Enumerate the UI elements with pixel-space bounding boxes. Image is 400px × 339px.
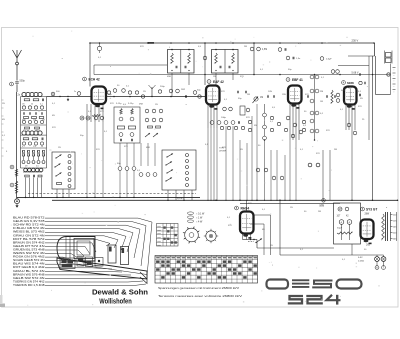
wave switch S1 box	[52, 152, 75, 189]
svg-text:0,5: 0,5	[272, 107, 276, 109]
svg-text:50p: 50p	[288, 69, 292, 71]
svg-text:1M: 1M	[260, 97, 263, 99]
svg-text:3-15p: 3-15p	[116, 103, 122, 105]
svg-text:4N: 4N	[2, 119, 5, 121]
pilot lamp La1	[375, 257, 380, 262]
parts right of V2	[223, 107, 227, 111]
ground bus left	[17, 196, 201, 198]
svg-text:2M: 2M	[334, 149, 337, 151]
svg-text:2M: 2M	[42, 119, 45, 121]
svg-text:6288: 6288	[347, 81, 354, 85]
svg-text:GRAU GN 572 4N: GRAU GN 572 4N	[13, 233, 45, 237]
svg-text:42: 42	[346, 216, 349, 218]
svg-text:○: ○	[393, 80, 395, 83]
tube V3 EBF41 label	[286, 78, 290, 82]
svg-text:578: 578	[52, 127, 56, 129]
svg-text:▬▬: ▬▬	[157, 237, 161, 239]
resistor ref V left edge	[10, 183, 14, 187]
svg-text:1N: 1N	[143, 91, 146, 93]
mixer coupling parts	[22, 120, 25, 123]
svg-text:▬▬: ▬▬	[157, 241, 161, 243]
logo digit 4	[327, 295, 341, 300]
tube V2 EAF42 label	[207, 80, 211, 84]
wire V5 top to bus	[246, 200, 248, 211]
logo DESO letter S	[312, 281, 332, 288]
svg-text:578: 578	[33, 119, 36, 121]
svg-text:LEVER: LEVER	[219, 151, 227, 153]
choke in box	[337, 232, 352, 234]
logo DESO letter O	[337, 280, 362, 289]
chassis sketch speaker magnet	[74, 239, 94, 259]
resistor squiggle R-ant	[15, 169, 17, 176]
svg-text:0,1: 0,1	[358, 91, 362, 93]
switch S1 wiper 3	[56, 173, 62, 177]
svg-text:4N8: 4N8	[146, 147, 151, 149]
svg-text:GELB RT 572 4N: GELB RT 572 4N	[13, 244, 45, 248]
svg-text:EBF 41: EBF 41	[292, 78, 303, 82]
svg-text:D.BLAU GB 572 4N: D.BLAU GB 572 4N	[13, 226, 45, 230]
chassis sketch speaker housing	[57, 237, 95, 262]
padder capacitors row	[23, 112, 25, 114]
svg-text:▬▬: ▬▬	[157, 226, 161, 228]
svg-text:BLAU RD 578-572: BLAU RD 578-572	[13, 216, 45, 220]
svg-text:GRUEN BL 573 4N8: GRUEN BL 573 4N8	[13, 247, 45, 251]
wires comb to heater bus	[207, 128, 209, 200]
svg-text:0,1: 0,1	[303, 125, 307, 127]
speaker line	[376, 94, 391, 96]
svg-text:6,3V~: 6,3V~	[177, 196, 184, 200]
switch S1 wiper 2	[55, 164, 61, 168]
filter capacitor box	[334, 203, 361, 244]
svg-text:1N: 1N	[240, 149, 243, 151]
svg-text:GELB SW 572 4N: GELB SW 572 4N	[13, 276, 45, 280]
svg-text:2M: 2M	[320, 91, 323, 93]
svg-text:Dewald & Sohn: Dewald & Sohn	[92, 287, 149, 296]
thick mark on B+ line	[148, 42, 155, 44]
chassis sketch tube can 2	[121, 247, 129, 265]
svg-text:230 V: 230 V	[352, 39, 359, 43]
tuner block right rail	[46, 97, 48, 168]
svg-text:○: ○	[393, 91, 395, 94]
decoupling cap on B+	[97, 46, 101, 50]
svg-text:BLAU WS 574 4N: BLAU WS 574 4N	[13, 262, 45, 266]
svg-text:0,1: 0,1	[300, 249, 304, 251]
svg-text:○: ○	[393, 85, 395, 88]
speaker terminal strip	[393, 67, 396, 69]
svg-text:50: 50	[41, 146, 43, 148]
svg-text:578: 578	[246, 117, 250, 119]
svg-text:578: 578	[96, 149, 100, 151]
svg-text:107: 107	[337, 216, 342, 218]
dropper parts column	[310, 75, 314, 79]
svg-text:5.68 V: 5.68 V	[352, 72, 359, 75]
svg-text:6-8V: 6-8V	[358, 257, 363, 259]
svg-text:4N: 4N	[25, 166, 28, 168]
svg-text:25: 25	[362, 119, 365, 121]
svg-text:5N: 5N	[360, 98, 363, 100]
svg-text:4N8: 4N8	[139, 104, 144, 106]
wires IF1 down	[171, 73, 173, 97]
wires refs to bus	[119, 170, 121, 197]
chassis sketch tube can 1	[108, 245, 116, 263]
svg-text:578: 578	[221, 91, 225, 93]
scan smudge bottom-left corner	[0, 304, 5, 308]
svg-text:a: a	[386, 207, 388, 209]
chassis transformer box	[60, 258, 75, 269]
rectifier V6 SY3GT label	[361, 207, 365, 211]
wire B+ drop mid	[204, 43, 206, 85]
wires V2 pins down	[207, 105, 209, 129]
svg-text:0,1: 0,1	[2, 135, 6, 137]
svg-text:578: 578	[140, 46, 144, 48]
svg-text:1M: 1M	[320, 101, 323, 103]
svg-text:EAF 42: EAF 42	[213, 80, 224, 84]
switch S1 contacts	[68, 155, 71, 158]
svg-text:≈ 1 W: ≈ 1 W	[196, 216, 203, 219]
svg-text:ROSA GN 576 4N2: ROSA GN 576 4N2	[13, 255, 45, 259]
svg-text:50p: 50p	[238, 98, 242, 100]
capacitor antenna series 500p	[15, 81, 18, 83]
svg-text:2M: 2M	[247, 94, 250, 96]
svg-text:0,1: 0,1	[321, 77, 325, 79]
legend oval 0.1W	[187, 212, 193, 215]
svg-text:GELB GN 6,3V 578: GELB GN 6,3V 578	[13, 219, 45, 223]
electrolytic cap C+ b	[347, 220, 352, 225]
svg-text:TUERKIS GN 574 4N2: TUERKIS GN 574 4N2	[13, 279, 45, 283]
svg-text:578: 578	[33, 146, 36, 148]
svg-text:50: 50	[364, 249, 367, 251]
wire row L1 base	[21, 96, 47, 98]
osc cathode parts refs 15 16	[80, 116, 84, 120]
svg-text:RH34: RH34	[241, 207, 250, 211]
svg-text:0,1: 0,1	[52, 103, 56, 105]
svg-text:0,1: 0,1	[227, 217, 231, 219]
svg-text:Spannungen gemessen mit Instru: Spannungen gemessen mit Instrument 26800…	[158, 286, 239, 290]
coil row L2 (oscillator coils)	[22, 131, 26, 135]
ground arrow mid	[67, 98, 69, 99]
refs row above switch	[118, 167, 122, 171]
transformer taps	[390, 212, 392, 241]
resistor ref 8 left edge	[10, 165, 14, 169]
svg-text:0,1: 0,1	[40, 104, 43, 106]
parts right of V4	[359, 94, 361, 97]
svg-text:SCHW GELB 572 4N: SCHW GELB 572 4N	[13, 258, 45, 262]
filter cap refs	[338, 207, 342, 211]
parts under L3	[25, 175, 30, 177]
detector load parts	[240, 106, 245, 115]
wires lamps top	[376, 255, 378, 257]
mains selector bracket	[396, 212, 398, 241]
parts in S1 bottom	[57, 183, 62, 185]
ground symbol main	[16, 204, 18, 206]
tuner block bottom ties	[21, 147, 47, 149]
extra component refs row1	[107, 91, 110, 94]
svg-text:500p: 500p	[20, 80, 26, 83]
svg-text:50p: 50p	[117, 163, 121, 165]
wave switch S2 box	[162, 150, 196, 190]
svg-text:0,1: 0,1	[342, 259, 346, 261]
svg-text:Tensions mesurées avec voltmèt: Tensions mesurées avec voltmètre 26800 Ω…	[158, 294, 242, 298]
svg-text:0,1: 0,1	[260, 69, 264, 71]
svg-text:5N: 5N	[254, 125, 257, 127]
svg-text:0,1: 0,1	[104, 131, 108, 133]
detector row parts	[210, 121, 214, 125]
resistor squiggle R-v	[15, 181, 18, 193]
refs mid IF	[169, 89, 173, 93]
output transformer T2	[386, 53, 392, 58]
tube V1 ECH42	[92, 87, 107, 105]
svg-text:3-15p: 3-15p	[128, 103, 134, 105]
svg-text:50p: 50p	[197, 90, 201, 92]
svg-text:BRAUN WS 576 4N8: BRAUN WS 576 4N8	[13, 272, 45, 276]
tuner block left rail	[20, 97, 22, 168]
rectifier V6 SY3GT	[361, 220, 374, 240]
resistors under L1	[24, 99, 30, 101]
wire nested L2	[250, 223, 264, 225]
IF transformer IF2 can	[212, 50, 239, 74]
trimmer cluster row 1	[22, 106, 25, 109]
switch S1 wiper 1	[56, 155, 62, 159]
output rails down	[372, 56, 374, 200]
signal wire to mixer	[47, 96, 92, 98]
left margin tick labels	[2, 99, 4, 101]
svg-text:+: +	[340, 220, 342, 224]
wire bus drop to lamps	[279, 200, 281, 255]
wire x369 down	[368, 56, 370, 140]
wire RH34 to rectifier	[256, 240, 258, 249]
svg-text:578: 578	[100, 111, 104, 113]
wires V4 pins down	[345, 105, 347, 131]
svg-text:50p: 50p	[80, 135, 84, 137]
wires L3 to ground bus	[25, 178, 27, 198]
svg-text:0,1: 0,1	[270, 121, 274, 123]
wires RH34 pins	[242, 234, 244, 240]
svg-text:0,1: 0,1	[126, 86, 130, 88]
svg-text:578: 578	[326, 130, 330, 132]
osc right column parts	[145, 109, 149, 113]
svg-text:SY3 GT: SY3 GT	[366, 208, 377, 212]
wires S1 to bus	[56, 189, 58, 197]
power transformer core	[385, 212, 387, 241]
svg-text:≈ 4 W: ≈ 4 W	[196, 220, 203, 223]
wires S2 to bus	[167, 190, 169, 200]
svg-text:50µF: 50µF	[337, 228, 343, 230]
wires V3 pins down	[289, 104, 291, 141]
svg-text:0,5: 0,5	[36, 166, 39, 168]
svg-text:0,5: 0,5	[123, 104, 127, 106]
transformer primary winding	[382, 214, 385, 239]
coil row L3	[24, 168, 28, 172]
extra parts under V2 and V3	[220, 126, 223, 129]
scan speckles	[253, 36, 256, 39]
svg-text:50: 50	[258, 145, 261, 147]
svg-text:50: 50	[31, 104, 33, 106]
tube V1 ECH42 label	[83, 77, 87, 81]
wire antenna rail down	[16, 92, 18, 197]
parts left of V4	[336, 93, 340, 97]
svg-text:0,1: 0,1	[340, 109, 344, 111]
wire B+ corner down	[374, 43, 376, 56]
logo digit 2	[306, 296, 323, 303]
svg-text:2M: 2M	[244, 46, 247, 48]
tube V3 EBF41	[288, 86, 302, 104]
svg-text:5: 5	[6, 151, 8, 153]
line y65 right segment	[338, 65, 369, 67]
voltage table	[155, 256, 258, 284]
wire nested L1	[254, 214, 271, 216]
svg-text:578: 578	[358, 106, 362, 108]
leader lines fan	[45, 218, 152, 276]
svg-text:0,5µF: 0,5µF	[326, 59, 332, 61]
ref 578 on bus	[322, 199, 326, 203]
svg-text:100p: 100p	[221, 117, 227, 119]
svg-text:1N: 1N	[290, 207, 293, 209]
svg-text:1N: 1N	[58, 147, 61, 149]
decoupling column wire	[314, 75, 316, 141]
svg-text:4,5M: 4,5M	[262, 49, 267, 51]
chassis bar tip	[140, 272, 147, 284]
parts below V3	[286, 116, 290, 120]
svg-text:4N8: 4N8	[22, 119, 25, 121]
wire B+ drop left	[89, 43, 91, 87]
svg-text:0,25A: 0,25A	[358, 259, 364, 262]
parts between V1 V2	[113, 89, 117, 93]
logo digit 5	[288, 296, 303, 303]
refs row AF section	[308, 163, 312, 167]
antenna A1	[16, 58, 18, 62]
svg-text:500: 500	[56, 91, 60, 93]
speaker terminal on screen line	[387, 73, 390, 76]
extra caps sprinkle	[237, 91, 239, 94]
svg-text:1N5: 1N5	[282, 94, 287, 96]
svg-text:I.: I.	[169, 47, 171, 49]
tube V4 EL41	[344, 87, 357, 105]
svg-text:2x: 2x	[74, 91, 77, 93]
logo DESO letter E	[292, 279, 309, 281]
svg-text:▬▬: ▬▬	[157, 244, 161, 246]
tube V4 6288/EL41 label	[342, 81, 346, 85]
mechanical link dashed line	[28, 193, 196, 195]
svg-text:○: ○	[393, 74, 395, 77]
svg-text:1,5n: 1,5n	[296, 58, 301, 60]
svg-text:578: 578	[124, 146, 128, 148]
wires V1 pins down	[86, 104, 88, 122]
screen line mid	[94, 74, 390, 76]
heater bus 6.3V	[52, 199, 398, 201]
IF can trimmer dots	[171, 49, 173, 51]
svg-text:4N: 4N	[262, 229, 265, 231]
legend oval 4W	[187, 220, 193, 223]
svg-text:2x: 2x	[18, 94, 21, 97]
svg-text:TUERKIS RD 1,5 4N8: TUERKIS RD 1,5 4N8	[13, 283, 45, 287]
svg-text:WEISS SW 572 4N: WEISS SW 572 4N	[13, 251, 45, 255]
svg-text:50: 50	[304, 211, 307, 213]
bus line 2	[240, 202, 340, 204]
box bottom wire	[351, 244, 353, 255]
svg-text:578: 578	[110, 103, 114, 105]
resistor ref 2 circle	[10, 82, 14, 86]
legend oval 1W	[187, 216, 193, 219]
parts under L2	[23, 138, 29, 140]
svg-text:ECH 42: ECH 42	[89, 78, 100, 82]
wave trap symbol	[151, 87, 153, 97]
chassis deck bar	[57, 258, 147, 279]
svg-text:▬▬: ▬▬	[157, 229, 161, 231]
IF transformer IF1 can	[168, 50, 195, 74]
AF coupling column	[263, 113, 267, 117]
svg-text:0,1: 0,1	[98, 57, 102, 59]
svg-text:578: 578	[228, 225, 232, 227]
osc grid box	[114, 107, 140, 143]
svg-text:GRAU BL 572 4N: GRAU BL 572 4N	[13, 269, 45, 273]
svg-text:WEISS BL 573 4N2: WEISS BL 573 4N2	[13, 230, 45, 234]
svg-text:+: +	[348, 220, 350, 224]
svg-text:≈ 0,1 W: ≈ 0,1 W	[196, 212, 205, 215]
wires osc parts down	[86, 122, 88, 197]
svg-text:578: 578	[222, 147, 226, 149]
svg-text:BRAUN GN 574 4N2: BRAUN GN 574 4N2	[13, 240, 45, 244]
earth terminal	[15, 199, 20, 204]
svg-text:Wollishofen: Wollishofen	[99, 298, 131, 305]
svg-text:0,1: 0,1	[224, 99, 228, 101]
logo DESO letter D	[267, 280, 289, 289]
mains switch	[256, 239, 262, 243]
junction dots	[99, 42, 101, 44]
lamp refs 6 7	[375, 266, 379, 270]
line y65 segment	[94, 64, 167, 66]
pilot lamp La2	[381, 257, 386, 262]
svg-text:1N: 1N	[213, 76, 216, 78]
svg-text:0,1: 0,1	[137, 170, 141, 172]
svg-text:0,1: 0,1	[300, 149, 304, 151]
svg-text:578: 578	[316, 153, 320, 155]
svg-text:4N: 4N	[52, 115, 55, 117]
svg-text:2M2: 2M2	[181, 89, 186, 91]
tube socket diagram 2	[206, 231, 216, 241]
line y56 segment	[348, 55, 375, 57]
osc trimmers	[120, 109, 122, 115]
refs on screen line right	[331, 70, 335, 74]
wires osc columns down	[119, 143, 121, 166]
switch S2 wipers	[167, 154, 173, 158]
tube V2 EAF42	[206, 86, 220, 105]
tube socket diagram 1	[185, 228, 199, 242]
svg-text:50: 50	[117, 85, 120, 87]
svg-text:265: 265	[366, 244, 371, 247]
wires IF2 down	[215, 73, 217, 86]
svg-text:50: 50	[304, 111, 307, 113]
svg-text:1N: 1N	[2, 103, 5, 105]
svg-text:1N: 1N	[155, 104, 158, 106]
chassis mid components	[77, 257, 84, 267]
svg-text:○: ○	[393, 69, 395, 72]
wire B+ drop right-mid	[253, 43, 255, 75]
small resistors row	[24, 117, 29, 119]
AF section verticals	[322, 150, 324, 200]
alignment table	[157, 224, 179, 247]
svg-text:28W: 28W	[365, 214, 371, 216]
svg-text:SCHW RD 572 4N: SCHW RD 572 4N	[13, 223, 45, 227]
refs near 1.5n caps	[278, 48, 282, 52]
trimmer capacitor column	[22, 151, 24, 157]
signal wire after mixer	[106, 96, 206, 98]
svg-text:50N: 50N	[341, 90, 345, 92]
svg-text:1N: 1N	[22, 104, 25, 106]
svg-text:0,1: 0,1	[262, 209, 266, 211]
tube V5 RH34	[240, 212, 254, 234]
svg-text:ROT GELB 6,3 4N2: ROT GELB 6,3 4N2	[13, 265, 45, 269]
svg-text:ROT BL 578 572: ROT BL 578 572	[13, 237, 45, 241]
